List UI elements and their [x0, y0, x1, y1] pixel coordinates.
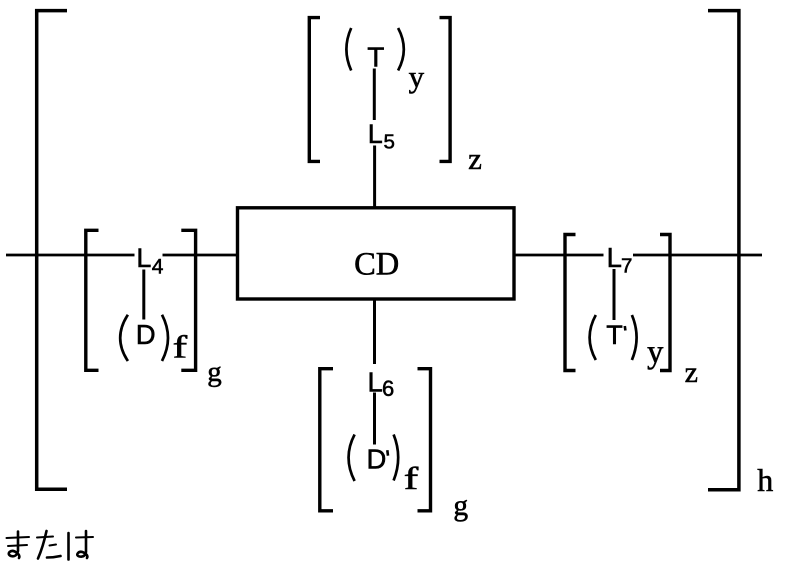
left group left bracket — [86, 230, 99, 370]
svg-text:z: z — [685, 356, 698, 389]
outer left bracket — [37, 11, 67, 490]
svg-text:g: g — [453, 490, 468, 522]
top group left paren — [346, 28, 351, 71]
bond L4 to D — [142, 270, 145, 320]
svg-text:h: h — [757, 462, 773, 498]
svg-text:L: L — [368, 119, 383, 149]
svg-text:L: L — [607, 242, 622, 273]
left group right paren — [162, 315, 168, 361]
svg-text:z: z — [468, 141, 482, 176]
svg-text:y: y — [409, 59, 425, 94]
bottom group right paren — [394, 435, 399, 481]
bond L6 to D' — [373, 393, 376, 445]
CD box — [238, 208, 515, 299]
svg-text:4: 4 — [152, 255, 164, 278]
bottom group right bracket — [418, 369, 431, 511]
bond L5 to box — [373, 146, 376, 208]
svg-text:T: T — [606, 320, 623, 350]
outer right bracket — [708, 11, 739, 490]
svg-text:f: f — [404, 460, 419, 496]
bottom group left paren — [349, 435, 355, 482]
bond T to L5 — [373, 69, 376, 121]
right group right paren — [632, 315, 637, 360]
wire main backbone left segment — [6, 254, 135, 257]
wire main backbone segment box-to-L7 — [513, 254, 604, 257]
right group left bracket — [565, 235, 576, 371]
svg-text:CD: CD — [354, 247, 399, 283]
left group right bracket — [181, 230, 195, 370]
wire main backbone right segment — [633, 254, 762, 257]
svg-text:f: f — [173, 329, 188, 365]
bond box to L6 — [373, 299, 376, 364]
prime of D' — [386, 450, 389, 456]
bond L7 to T' — [613, 269, 616, 320]
svg-text:5: 5 — [384, 131, 395, 154]
text matawa (or) kana ta — [37, 531, 61, 559]
bottom group left bracket — [320, 369, 333, 511]
right group left paren — [590, 315, 596, 360]
right group right bracket — [660, 235, 670, 371]
top group right bracket — [440, 18, 451, 162]
svg-text:g: g — [207, 356, 222, 388]
svg-text:7: 7 — [621, 255, 632, 278]
left group left paren — [120, 315, 128, 361]
top group right paren — [398, 28, 404, 71]
text matawa (or) kana ma — [7, 532, 30, 559]
svg-text:6: 6 — [382, 376, 394, 401]
svg-text:D: D — [136, 319, 156, 350]
prime of T' — [623, 326, 626, 331]
wire main backbone segment L4-to-box — [163, 254, 239, 257]
svg-text:L: L — [136, 243, 151, 273]
svg-text:y: y — [647, 335, 664, 371]
text matawa (or) kana ha — [69, 531, 94, 560]
svg-text:D: D — [367, 443, 387, 474]
top group left bracket — [309, 18, 320, 162]
svg-text:T: T — [367, 41, 384, 72]
